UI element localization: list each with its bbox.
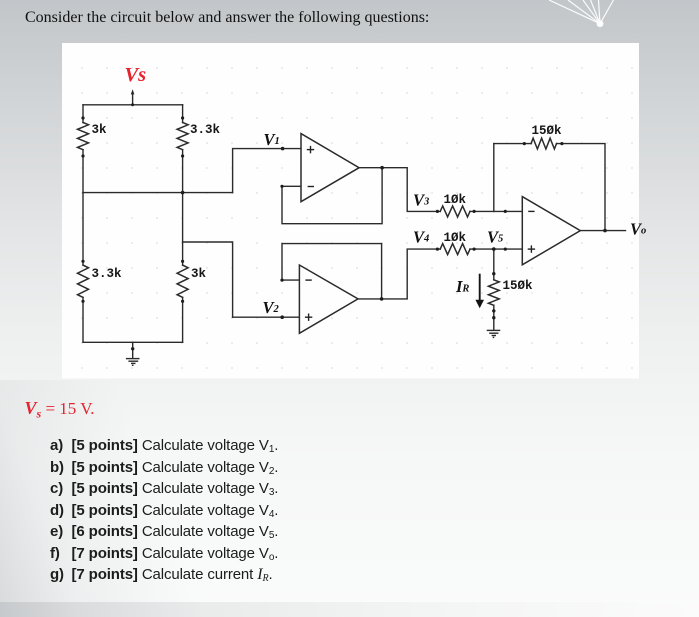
wire: mid rail <box>83 192 233 194</box>
wire: V3 line into U3 minus <box>470 210 522 212</box>
resistor R 3k (top-left) <box>78 123 89 150</box>
junction: R 3k bottom lead (bottom-second) <box>181 300 184 303</box>
wire: second column to bottom rail <box>182 297 184 342</box>
wire: U3 feedback left riser <box>493 144 495 212</box>
junction: U2 output / feedback tap <box>380 297 384 301</box>
junction: 10k right lead on V3 line <box>473 210 476 213</box>
junction: ground stub on bottom rail <box>131 347 134 350</box>
junction: 150k grounding resistor bottom lead <box>492 309 495 312</box>
junction: U2 minus stub corner <box>280 279 283 282</box>
junction: node V4 (10k left lead) <box>436 248 439 251</box>
wire: U3 output to Vo <box>580 230 625 232</box>
red Vs = 15 V. line <box>25 398 95 419</box>
resistor R 150k (feedback) <box>531 138 557 149</box>
junction: U3 output / feedback tap <box>603 229 607 233</box>
junction: U1 minus stub corner <box>280 185 283 188</box>
svg-text:Vs: Vs <box>125 64 147 86</box>
resistor R 10k (V3 line) <box>440 206 470 217</box>
questions list <box>50 437 278 588</box>
wire: left column to mid rail <box>82 150 84 193</box>
wire: V4/V5 line into U3 plus <box>470 248 522 250</box>
resistor R 150k (to ground) <box>488 280 499 306</box>
op-amp U3 plus input mark <box>528 245 535 252</box>
current IR arrow <box>475 274 484 309</box>
op-amp U2 minus input mark <box>305 279 311 281</box>
wire: top rail <box>83 104 183 106</box>
op-amp U1 feedback: minus stub, down, across, up to output <box>282 168 382 224</box>
resistor R 3.3k (top-second) <box>177 123 188 150</box>
Vs arrow head <box>131 89 135 94</box>
svg-text:3k: 3k <box>191 267 207 281</box>
ground (under 150k) <box>487 330 501 337</box>
op-amp U1 minus input mark <box>308 186 314 188</box>
wire: 150k lower lead to ground <box>493 305 495 330</box>
junction: U3 plus input lead <box>504 248 507 251</box>
wire: U3 feedback top right segment and right riser <box>557 144 606 231</box>
junction: feedback 150k left lead <box>523 142 526 145</box>
junction: feedback 150k right lead <box>560 142 563 145</box>
svg-text:3k: 3k <box>92 123 108 137</box>
junction: R 3k top lead (bottom-second) <box>181 260 184 263</box>
title line <box>25 9 429 27</box>
wire: U2 output to V4 line <box>358 249 440 299</box>
junction: 150k grounding resistor top lead <box>492 272 495 275</box>
junction: R 3.3k bottom lead (bottom-left) <box>81 300 84 303</box>
op-amp U2 plus input mark <box>305 314 312 321</box>
junction: R 3.3k top lead (second column) <box>181 116 184 119</box>
junction: node V3 (10k left lead) <box>436 210 439 213</box>
Vs source arrow stem <box>132 93 134 105</box>
junction: R 3k bottom lead (left column) <box>81 154 84 157</box>
resistor R 10k (V4 line) <box>440 244 470 255</box>
op-amp U1 plus input mark <box>307 146 314 153</box>
svg-text:3.3k: 3.3k <box>92 267 123 281</box>
wire: V2 line into op-amp <box>233 316 300 318</box>
ground (left) <box>126 359 140 366</box>
svg-text:Vo: Vo <box>630 220 646 239</box>
resistor R 3.3k (bottom-left) <box>78 265 89 297</box>
wire: U1 output to V3 line <box>359 168 440 212</box>
junction: U1 output / feedback tap <box>380 166 384 170</box>
op-amp U1 <box>301 134 359 202</box>
junction: node V5 (150k tap) <box>492 247 496 251</box>
svg-text:1Øk: 1Øk <box>444 231 467 245</box>
junction: 10k right lead on V4 line <box>473 248 476 251</box>
op-amp U3 minus input mark <box>528 210 534 212</box>
op-amp U2 feedback: minus stub, up, across, down to output <box>282 244 382 299</box>
junction: R 3k top lead (left column) <box>81 116 84 119</box>
wire: second column mid to lower <box>182 193 184 266</box>
op-amp U2 <box>299 265 358 333</box>
background wedge bottom-left <box>0 380 699 617</box>
wire: bottom rail <box>83 341 183 343</box>
junction: node at mid rail / second column <box>181 191 185 195</box>
wire: left column to bottom rail <box>82 297 84 342</box>
wire: branch to V2 riser <box>183 242 233 317</box>
wire: 150k grounding resistor upper lead <box>493 249 495 280</box>
node V2 <box>280 315 284 319</box>
junction: R 3.3k top lead (bottom-left) <box>81 260 84 263</box>
svg-text:15Øk: 15Øk <box>532 124 563 138</box>
svg-text:1Øk: 1Øk <box>444 193 467 207</box>
junction: ground lead below 150k <box>492 316 495 319</box>
wire: left column upper lead <box>82 105 84 123</box>
wire: ground stub left <box>132 342 134 358</box>
wire: second column to mid rail <box>182 150 184 193</box>
junction: U3 minus input lead <box>504 210 507 213</box>
footer strip <box>0 601 699 617</box>
wire: second column upper lead <box>182 105 184 123</box>
wire: left column lower section <box>82 193 84 266</box>
junction: Vs arrow on top rail <box>131 103 134 106</box>
node V1 <box>281 147 285 151</box>
svg-text:3.3k: 3.3k <box>190 123 221 137</box>
svg-text:15Øk: 15Øk <box>503 279 534 293</box>
junction: R 3.3k bottom lead (second column) <box>181 154 184 157</box>
wire: U3 feedback top left segment <box>494 143 531 145</box>
wire: riser to V1 line <box>233 149 301 193</box>
resistor R 3k (bottom-second) <box>177 265 188 297</box>
op-amp U3 <box>522 197 580 265</box>
